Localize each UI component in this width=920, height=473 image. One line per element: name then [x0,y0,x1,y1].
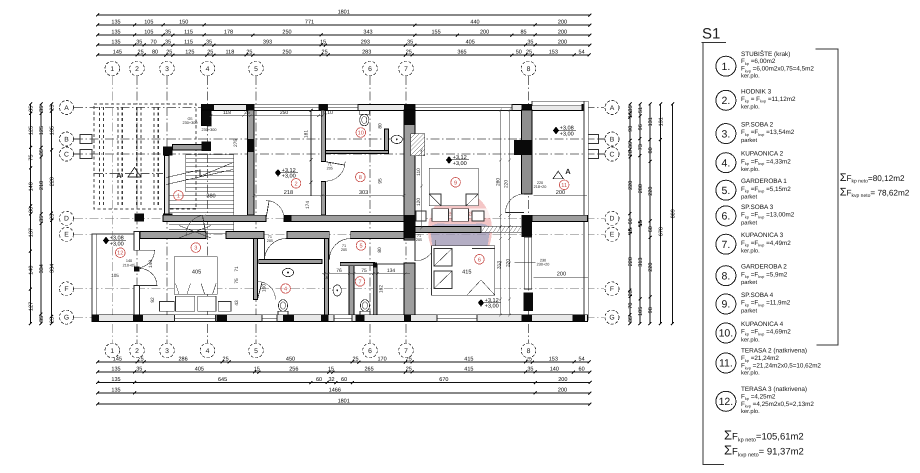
svg-text:25: 25 [138,50,144,56]
svg-text:35: 35 [39,216,45,222]
room number 9 [451,178,461,188]
door at D corridor [266,201,284,219]
svg-text:1: 1 [177,193,180,199]
svg-text:28: 28 [628,150,634,156]
svg-text:7.: 7. [722,239,731,251]
svg-text:Fkp =Fkvp =5,9m2: Fkp =Fkvp =5,9m2 [741,271,788,279]
room number 7 [355,277,365,287]
svg-text:73: 73 [638,144,644,150]
bottom windows [175,315,216,322]
room number 2 [291,179,301,189]
svg-text:35: 35 [527,367,533,373]
svg-text:4: 4 [206,66,210,73]
door E to room5 [329,239,350,260]
top exterior wall [202,104,588,110]
svg-text:7: 7 [404,348,408,355]
right dimension column 1 [629,103,632,326]
svg-text:135: 135 [111,20,120,26]
svg-text:771: 771 [305,20,314,26]
level marker terrace11 [553,127,559,135]
svg-text:135: 135 [111,388,120,394]
svg-text:8: 8 [527,66,531,73]
svg-text:365: 365 [457,50,466,56]
vertical grid lines [112,76,528,343]
svg-text:KUPAONICA 2: KUPAONICA 2 [741,151,784,158]
svg-text:393: 393 [263,40,272,46]
stairs treads [169,155,234,234]
level marker hall [275,169,281,177]
svg-text:43: 43 [234,300,240,306]
door corridor to room6 [415,240,436,261]
legend item 1 [716,56,736,76]
svg-text:Fkp =Fkvp =4,33m2: Fkp =Fkvp =4,33m2 [741,158,791,166]
grid bubbles left [60,101,74,115]
window top hall [254,104,319,110]
legend item 2 [716,90,736,110]
svg-text:F: F [64,286,68,293]
legend item 3 [716,124,736,144]
svg-text:10: 10 [358,130,364,136]
svg-text:Fkp =Fkvp =11,9m2: Fkp =Fkvp =11,9m2 [741,300,791,308]
svg-text:200: 200 [558,20,567,26]
door E to bath4 niche [265,239,287,261]
svg-text:250: 250 [282,30,291,36]
svg-text:G: G [609,315,614,322]
svg-text:131: 131 [658,117,664,126]
svg-text:9: 9 [454,180,457,186]
svg-text:178: 178 [224,30,233,36]
svg-text:3: 3 [165,66,169,73]
window top bath10 [328,104,359,110]
corridor X door symbol [179,226,211,239]
svg-text:30: 30 [28,207,34,213]
svg-text:+3,00: +3,00 [560,131,574,137]
svg-text:+3,00: +3,00 [453,161,467,167]
bed room3 [160,257,232,312]
svg-text:STUBIŠTE (krak): STUBIŠTE (krak) [741,50,790,58]
svg-text:8: 8 [527,348,531,355]
room number 8 [356,172,366,182]
svg-text:16: 16 [628,112,634,118]
svg-text:125: 125 [28,126,34,135]
svg-text:35: 35 [165,40,171,46]
svg-text:8.: 8. [722,270,731,282]
svg-text:200: 200 [558,388,567,394]
section marker A right [553,171,564,179]
svg-text:15: 15 [328,367,334,373]
wall y261 bath4 north [259,260,322,264]
svg-text:670: 670 [439,377,448,383]
svg-text:12.: 12. [719,396,734,408]
bottom dimension row 1 [96,361,590,364]
svg-text:+3,00: +3,00 [110,241,124,247]
svg-text:E: E [64,232,69,239]
svg-text:110: 110 [416,168,422,176]
svg-text:ker.plo.: ker.plo. [741,248,760,255]
svg-text:7: 7 [404,66,408,73]
svg-text:313: 313 [497,261,503,269]
svg-text:71: 71 [234,266,240,272]
svg-text:415: 415 [464,357,473,363]
svg-text:1801: 1801 [338,10,350,16]
svg-text:809: 809 [670,209,676,218]
legend brackets [702,43,839,465]
room number 4 [281,284,291,294]
svg-text:HODNIK 3: HODNIK 3 [741,88,772,95]
top dimension row 1801 [96,14,591,17]
watermark circle [428,191,492,269]
svg-text:200: 200 [558,377,567,383]
svg-text:ker.plo.: ker.plo. [741,336,760,343]
bottom dimension row 5 [96,403,591,406]
svg-text:140: 140 [28,266,34,275]
bottom exterior wall [92,315,588,322]
bed room9 [416,168,484,221]
B C connector stubs right [587,135,605,159]
svg-text:35: 35 [628,105,634,111]
svg-text:25: 25 [49,105,55,111]
vertical dim line room9 left [420,149,423,230]
svg-text:Fkp =Fkvp =4,69m2: Fkp =Fkvp =4,69m2 [741,329,791,337]
svg-text:25: 25 [207,50,213,56]
svg-text:B: B [610,136,615,143]
svg-text:98: 98 [648,307,654,313]
svg-text:Fkvp =6,00m2x0,75=4,5m2: Fkvp =6,00m2x0,75=4,5m2 [741,66,814,74]
grid bubbles top [105,61,120,76]
right exterior wall parapet [584,101,588,320]
svg-text:1.: 1. [722,61,731,73]
svg-text:230+300: 230+300 [183,121,198,125]
level marker room6 [478,299,484,307]
svg-text:25: 25 [49,214,55,220]
svg-text:105: 105 [111,273,119,278]
svg-text:Fkp =Fkvp =13,54m2: Fkp =Fkvp =13,54m2 [741,129,795,137]
svg-text:1: 1 [110,66,114,73]
left dimension column 3 [50,103,53,326]
svg-text:115: 115 [184,40,193,46]
svg-text:280: 280 [638,184,644,193]
door bath4 [257,282,275,300]
room number 3 [191,243,201,253]
svg-text:TERASA 3 (natkrivena): TERASA 3 (natkrivena) [741,386,807,393]
svg-text:6: 6 [368,66,372,73]
svg-text:1801: 1801 [338,399,350,405]
svg-text:12: 12 [117,251,123,257]
top dimension row 5 [96,54,590,57]
wall x351 lower strip [349,265,354,315]
svg-text:51: 51 [638,107,644,113]
svg-text:32: 32 [328,377,334,383]
svg-text:303: 303 [359,190,368,196]
svg-text:ker.plo.: ker.plo. [741,408,760,415]
svg-text:16: 16 [628,228,634,234]
legend item 12 [716,391,736,411]
svg-text:140: 140 [126,259,132,263]
svg-text:137: 137 [28,228,34,237]
level marker room9 [446,156,452,164]
svg-text:135: 135 [111,377,120,383]
svg-text:210+05: 210+05 [123,264,136,268]
svg-text:KUPAONICA 4: KUPAONICA 4 [741,321,784,328]
svg-text:80: 80 [377,247,383,253]
watermark blue shape [430,223,490,268]
vertical dim lines rooms 6 and 9 [499,109,511,317]
svg-text:380: 380 [206,194,215,200]
svg-text:35: 35 [165,30,171,36]
svg-text:E: E [610,232,615,239]
section line A-A left [94,173,163,175]
svg-text:parket: parket [741,279,758,286]
svg-text:205: 205 [341,248,347,252]
svg-text:F: F [610,286,614,293]
svg-text:35: 35 [628,316,634,322]
interior dim hall [253,194,406,197]
svg-text:450: 450 [286,357,295,363]
svg-text:D: D [610,216,615,223]
svg-text:C: C [64,151,69,158]
svg-text:4.: 4. [722,157,731,169]
svg-text:35: 35 [39,316,45,322]
svg-text:160: 160 [262,284,268,292]
svg-text:145: 145 [113,50,122,56]
svg-text:Fkvp =4,25m2x0,5=2,13m2: Fkvp =4,25m2x0,5=2,13m2 [741,401,814,409]
top wall columns [202,104,214,111]
svg-text:135: 135 [111,367,120,373]
svg-text:2: 2 [135,66,139,73]
svg-text:2: 2 [294,181,297,187]
svg-text:678: 678 [658,227,664,236]
right dimension column 5 [671,103,674,326]
stairs walking line [166,170,233,185]
bottom wall columns [92,315,99,322]
svg-text:1: 1 [110,348,114,355]
svg-text:25: 25 [526,50,532,56]
svg-text:6: 6 [368,348,372,355]
room number 6 [475,254,485,264]
svg-text:218: 218 [284,190,293,196]
right dimension column 4 [659,103,662,326]
svg-text:35: 35 [39,106,45,112]
legend item 5 [716,180,736,200]
svg-text:0,10: 0,10 [323,110,333,116]
svg-text:283: 283 [362,50,371,56]
svg-text:140: 140 [550,367,559,373]
svg-text:200: 200 [480,30,489,36]
wall line D [163,215,266,222]
svg-text:220: 220 [628,181,634,190]
svg-text:118: 118 [223,110,231,116]
wall grid5 vertical [248,110,255,215]
svg-text:36: 36 [628,142,634,148]
bottom dimension row 3 [96,381,591,384]
left dimension column 1 [29,103,32,326]
svg-text:5: 5 [254,66,258,73]
svg-text:134: 134 [387,268,396,274]
grid bubbles right [605,101,619,115]
wall grid8 vertical [522,110,533,194]
svg-text:ΣFkvp neto= 78,62m2: ΣFkvp neto= 78,62m2 [840,187,910,200]
svg-text:125: 125 [39,126,45,135]
legend item 10 [716,323,736,343]
svg-text:ker.plo.: ker.plo. [741,104,760,111]
double door to room3 [140,250,155,267]
svg-text:25: 25 [223,357,229,363]
svg-text:440: 440 [470,20,479,26]
svg-text:250: 250 [282,50,291,56]
svg-text:140: 140 [148,260,154,268]
svg-text:645: 645 [218,377,227,383]
svg-text:60: 60 [341,377,347,383]
svg-text:35: 35 [136,40,142,46]
svg-text:220: 220 [504,180,510,188]
svg-text:GARDEROBA 1: GARDEROBA 1 [741,178,787,185]
wall y263 room5 south [340,263,375,266]
toilet bath7 [360,300,369,312]
svg-text:3.: 3. [722,128,731,140]
svg-text:313: 313 [638,258,644,267]
right dimension column 3 [649,103,652,326]
svg-text:220: 220 [49,177,55,186]
wall grid4 stub below top wall [202,110,212,126]
svg-text:ker.plo.: ker.plo. [741,73,760,80]
svg-text:70: 70 [151,40,157,46]
dim terrace right [534,277,589,279]
bottom dimension row 2 [96,371,591,374]
wall niche washbasin bath10 [385,129,389,150]
svg-text:75: 75 [361,268,367,274]
svg-text:TERASA 2 (natkrivena): TERASA 2 (natkrivena) [741,348,807,355]
svg-text:70: 70 [628,303,634,309]
svg-text:54: 54 [579,50,585,56]
window in wall grid8 [524,237,532,289]
svg-text:181: 181 [304,130,310,138]
wall x326 lower strip [325,239,329,315]
svg-text:405: 405 [192,269,201,275]
svg-text:SP.SOBA 3: SP.SOBA 3 [741,204,774,211]
svg-text:54: 54 [579,357,585,363]
right dimension column 2 [639,103,642,326]
room number 5 [356,241,366,251]
svg-text:parket: parket [741,307,758,314]
svg-text:200: 200 [557,272,566,278]
svg-text:105: 105 [144,20,153,26]
interior dim terrace11 [534,195,588,197]
svg-text:80: 80 [648,147,654,153]
terrace 12 west wall [92,234,96,322]
svg-text:A: A [116,171,122,180]
interior dim strip y273 [322,272,410,274]
svg-text:4: 4 [206,348,210,355]
svg-text:35: 35 [527,40,533,46]
svg-text:8: 8 [359,175,362,181]
legend item 11 [716,353,736,373]
bed room6 [432,246,495,295]
svg-text:KUPAONICA 3: KUPAONICA 3 [741,232,784,239]
svg-text:16: 16 [323,275,329,280]
svg-text:25: 25 [352,357,358,363]
svg-text:170: 170 [378,357,387,363]
door corridor at E [186,215,206,235]
svg-text:3: 3 [165,348,169,355]
svg-text:60: 60 [648,226,654,232]
svg-text:ker.plo.: ker.plo. [741,370,760,377]
svg-text:2.: 2. [722,95,731,107]
svg-text:25: 25 [628,290,634,296]
svg-text:10.: 10. [719,328,734,340]
svg-text:35: 35 [407,40,413,46]
svg-text:A: A [565,167,571,176]
svg-text:C: C [610,151,615,158]
svg-text:205: 205 [267,239,273,243]
svg-text:Fkp = Fkvp =11,12m2: Fkp = Fkvp =11,12m2 [741,96,796,104]
grid bubbles bottom [105,343,120,358]
svg-text:118: 118 [226,50,235,56]
svg-text:135: 135 [111,30,120,36]
legend item 8 [716,266,736,286]
svg-text:SP.SOBA 2: SP.SOBA 2 [741,122,774,129]
svg-text:A: A [610,105,615,112]
basin bath10 [391,135,402,143]
stairs landing wall [173,145,203,150]
window label g8 [515,262,536,264]
svg-text:5.: 5. [722,185,731,197]
svg-text:4: 4 [284,286,287,292]
svg-text:220: 220 [628,257,634,266]
svg-text:15: 15 [254,367,260,373]
svg-text:415: 415 [462,269,471,275]
wall line E [140,232,206,239]
wall grid7 vertical [404,110,415,240]
svg-text:200: 200 [556,190,565,196]
wall mid vertical 15cm [321,110,325,162]
svg-text:115: 115 [184,30,193,36]
svg-text:174: 174 [305,201,311,209]
svg-text:16: 16 [638,220,644,226]
svg-text:+3,00: +3,00 [282,174,296,180]
svg-text:9.: 9. [722,299,731,311]
wall between room10 and room8 [326,150,389,153]
door hall to room8 [326,162,346,182]
svg-text:220: 220 [648,187,654,196]
svg-text:1466: 1466 [329,388,341,394]
svg-text:265: 265 [365,367,374,373]
svg-text:35: 35 [39,149,45,155]
svg-text:parket: parket [741,137,758,144]
svg-text:343: 343 [363,30,372,36]
svg-text:Fkp =Fkvp =4,49m2: Fkp =Fkvp =4,49m2 [741,240,791,248]
svg-text:200: 200 [558,30,567,36]
room number 11 [559,180,569,190]
svg-text:B: B [64,136,69,143]
top dimension row 2 [96,24,591,27]
toilet bath4 [278,300,287,312]
window top room9 [415,104,512,110]
svg-text:60: 60 [316,377,322,383]
svg-text:15: 15 [320,40,326,46]
svg-text:25: 25 [49,317,55,323]
svg-text:155: 155 [432,30,441,36]
svg-text:ker.plo.: ker.plo. [741,166,760,173]
svg-text:205: 205 [416,238,422,242]
svg-text:85: 85 [520,30,526,36]
interior dim top y115 [210,115,324,117]
svg-text:415: 415 [464,367,473,373]
svg-text:Fkp =Fkvp =13,00m2: Fkp =Fkvp =13,00m2 [741,212,795,220]
svg-text:parket: parket [741,194,758,201]
svg-text:G: G [64,315,69,322]
svg-text:120: 120 [416,198,422,206]
svg-text:230+20: 230+20 [537,263,550,267]
